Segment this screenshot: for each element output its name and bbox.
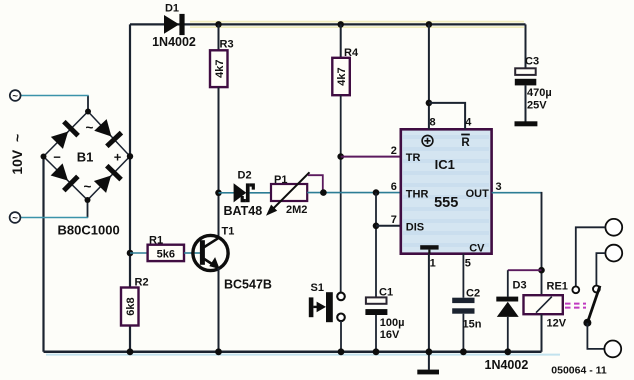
svg-text:555: 555 — [434, 195, 458, 211]
svg-text:2M2: 2M2 — [286, 204, 307, 216]
svg-text:470µ: 470µ — [527, 87, 552, 99]
IC1 internal ground glyph — [420, 245, 438, 249]
node rail pin1 ground junction — [426, 348, 433, 355]
wire D3 top purple — [508, 269, 542, 271]
wire R2 bottom to ground rail — [129, 326, 131, 352]
IC1 fill stripes — [403, 137, 489, 245]
resistor R1 — [148, 245, 184, 261]
svg-text:4k7: 4k7 — [214, 60, 226, 78]
wire P1 wiper loop purple — [308, 175, 323, 192]
svg-text:~: ~ — [86, 120, 94, 135]
svg-text:−: − — [53, 150, 61, 165]
svg-text:R1: R1 — [149, 235, 163, 247]
svg-text:BAT48: BAT48 — [224, 204, 263, 218]
svg-text:1N4002: 1N4002 — [152, 35, 196, 49]
node bridge top corner — [85, 109, 91, 115]
svg-text:6k8: 6k8 — [125, 297, 137, 315]
node rail S1 junction — [338, 348, 345, 355]
svg-text:R3: R3 — [220, 39, 234, 51]
wire R3 bottom to D2 junction to T1 collector — [218, 87, 220, 238]
svg-text:16V: 16V — [380, 329, 400, 341]
svg-text:100µ: 100µ — [380, 317, 405, 329]
svg-text:T1: T1 — [222, 226, 235, 238]
diode D2 schottky BAT48 — [234, 183, 255, 202]
diode D3 triangle — [497, 302, 519, 317]
terminal AC lower — [10, 212, 21, 223]
svg-text:CV: CV — [469, 243, 485, 255]
wire R4 bottom to TR junction to S1 — [340, 95, 342, 293]
relay RE1 body — [524, 295, 563, 314]
node rail T1 emitter junction — [215, 348, 222, 355]
svg-text:R4: R4 — [344, 47, 359, 59]
svg-text:6: 6 — [391, 181, 397, 193]
node bridge plus corner — [127, 153, 133, 159]
svg-text:15n: 15n — [463, 319, 482, 331]
wire top terminal to switch contact A — [576, 227, 606, 286]
svg-text:C2: C2 — [466, 287, 480, 299]
transistor T1 base bar — [200, 240, 205, 265]
wire P1 to THR teal — [307, 192, 401, 194]
wire bridge plus corner down to R2 top — [129, 156, 131, 287]
svg-text:S1: S1 — [311, 282, 324, 294]
svg-text:D1: D1 — [165, 3, 179, 15]
node D3 relay junction — [538, 267, 545, 274]
transistor T1 emitter diagonal with arrow — [204, 259, 217, 267]
pushbutton S1 left bar — [309, 297, 314, 317]
pushbutton S1 top contact — [337, 293, 345, 301]
relay actuation dashed magenta links — [565, 304, 586, 308]
svg-text:1: 1 — [430, 258, 436, 270]
resistor R4 — [332, 58, 350, 95]
svg-text:10V ~: 10V ~ — [9, 134, 25, 175]
svg-text:050064 - 11: 050064 - 11 — [551, 365, 607, 377]
node DIS junction — [373, 223, 380, 230]
wire D3 anode to rail — [507, 317, 509, 352]
ground symbol below rail — [417, 370, 439, 375]
potentiometer P1 arrow — [272, 172, 310, 210]
node rail R2 junction — [127, 348, 134, 355]
node top rail R4 junction — [337, 21, 344, 28]
wire T1 emitter to ground rail — [218, 268, 220, 352]
output terminal middle — [605, 245, 622, 262]
svg-text:7: 7 — [391, 214, 397, 226]
output terminal bottom — [604, 341, 621, 358]
switch contact A open circle — [572, 286, 579, 293]
pushbutton S1 plunger bar — [326, 292, 333, 322]
wire pin5 to C2 — [462, 254, 464, 298]
relay switch blade — [587, 286, 600, 323]
svg-text:3: 3 — [495, 181, 501, 193]
wire C3 from top rail — [525, 24, 527, 68]
node bridge minus corner — [41, 154, 47, 160]
node top rail pin8 junction — [426, 21, 433, 28]
wire left vertical from top rail to bridge plus corner — [129, 24, 131, 156]
wire pin1 to rail and ground — [428, 254, 430, 370]
svg-text:DIS: DIS — [406, 222, 424, 234]
wire pivot to bottom terminal — [587, 323, 605, 349]
svg-text:~: ~ — [12, 91, 18, 102]
node rail C2 junction — [460, 348, 467, 355]
wire teal from upper AC terminal to bridge top — [21, 95, 89, 97]
node rail D3 junction — [504, 348, 511, 355]
svg-text:R: R — [461, 137, 470, 149]
wire D2 anode lead — [219, 192, 235, 194]
wire pin3 OUT horizontal — [492, 192, 542, 194]
bridge diode top-right — [93, 118, 123, 148]
capacitor C3 top plate — [515, 68, 536, 75]
wire stub bridge top corner up — [87, 96, 89, 112]
IC1 555 body — [401, 129, 492, 253]
wire stub bridge bottom corner down — [87, 200, 89, 218]
svg-text:OUT: OUT — [466, 188, 490, 200]
svg-text:D2: D2 — [238, 170, 252, 182]
svg-text:RE1: RE1 — [547, 280, 568, 292]
wire D3 cathode lead — [507, 270, 509, 297]
wire C1 vertical THR to DIS to C1 — [375, 193, 377, 298]
switch contact B open circle — [593, 286, 600, 293]
wire C3 bottom to ground — [525, 85, 527, 121]
capacitor C3 bottom plate — [515, 79, 537, 86]
wire relay bottom to rail — [541, 314, 543, 352]
node TR junction — [337, 153, 344, 160]
node THR C1 junction — [373, 189, 380, 196]
node bridge bottom corner — [85, 197, 91, 203]
capacitor C1 top plate — [366, 297, 387, 303]
svg-text:BC547B: BC547B — [224, 278, 272, 292]
wire C2 bottom to rail — [462, 314, 464, 352]
decorative cyan fringe under ground rail — [46, 354, 560, 356]
wire top supply rail — [130, 23, 526, 25]
svg-text:12V: 12V — [547, 317, 567, 329]
pushbutton S1 stem with arrow — [313, 306, 318, 308]
bridge diode bottom-right — [93, 164, 123, 194]
svg-text:B80C1000: B80C1000 — [58, 223, 120, 238]
svg-text:5: 5 — [465, 258, 471, 270]
node D2 anode junction — [215, 190, 222, 197]
node top rail R3 junction — [215, 21, 222, 28]
diode D1 — [164, 14, 185, 35]
wire R4 top lead — [340, 24, 342, 57]
decorative yellow fringe along top rail — [190, 22, 524, 28]
bridge diode top-left — [50, 120, 80, 150]
wire pin4 branch — [429, 103, 465, 129]
wire R3 top lead — [218, 24, 220, 50]
capacitor C1 bottom plate — [365, 309, 387, 315]
transistor T1 collector diagonal — [204, 238, 220, 248]
wire R1 right lead to T1 base — [184, 252, 200, 254]
IC1 plus symbol — [422, 135, 433, 146]
svg-text:+: + — [114, 150, 122, 165]
diode D3 cathode bar — [496, 297, 518, 302]
wire S1 bottom contact to rail — [340, 321, 342, 352]
svg-text:TR: TR — [406, 152, 421, 164]
capacitor C2 top plate — [452, 298, 474, 303]
svg-text:~: ~ — [84, 179, 92, 194]
resistor R2 — [121, 288, 139, 326]
svg-text:4: 4 — [465, 117, 472, 129]
svg-text:2: 2 — [391, 145, 397, 157]
svg-text:4k7: 4k7 — [336, 67, 348, 85]
output terminal top — [605, 219, 622, 236]
transistor T1 circle — [193, 235, 228, 270]
svg-text:P1: P1 — [274, 174, 287, 186]
relay RE1 diagonal — [536, 297, 552, 313]
node rail C1 junction — [373, 348, 380, 355]
bridge rectifier B1 diamond outline — [44, 112, 131, 201]
wire OUT down to relay top — [541, 192, 543, 295]
terminal AC upper — [10, 90, 21, 101]
svg-text:25V: 25V — [527, 99, 547, 111]
svg-text:~: ~ — [12, 213, 18, 224]
svg-text:C3: C3 — [525, 56, 539, 68]
svg-text:C1: C1 — [379, 286, 393, 298]
wire bridge minus corner down to ground rail — [42, 157, 44, 352]
capacitor C2 bottom plate — [452, 308, 474, 313]
svg-text:5k6: 5k6 — [157, 248, 175, 260]
svg-text:8: 8 — [429, 117, 435, 129]
svg-text:IC1: IC1 — [435, 157, 455, 172]
relay switch pivot dot — [583, 319, 591, 327]
wire R1 left lead — [130, 252, 148, 254]
wire pin8 from top rail — [428, 24, 430, 129]
node P1 wiper junction — [320, 189, 327, 196]
ground symbol below C3 — [515, 121, 538, 126]
wire bottom ground rail — [44, 351, 542, 354]
pushbutton S1 bottom contact — [337, 314, 345, 322]
wire pin7 DIS — [376, 225, 401, 227]
wire C1 bottom to rail — [375, 315, 377, 352]
wire teal from lower AC terminal to bridge bottom — [21, 217, 89, 219]
bridge diode bottom-left — [50, 162, 80, 192]
node pin8 pin4 junction — [426, 100, 433, 107]
node R1 junction on left vertical — [127, 250, 134, 257]
wire middle terminal to switch contact B — [596, 253, 605, 285]
wire D2 cathode to P1 — [249, 192, 271, 194]
svg-text:B1: B1 — [77, 150, 94, 165]
svg-text:D3: D3 — [513, 280, 527, 292]
wire pin2 TR purple — [341, 156, 401, 158]
svg-text:1N4002: 1N4002 — [485, 358, 529, 372]
potentiometer P1 body — [271, 184, 307, 201]
svg-text:THR: THR — [406, 189, 429, 201]
resistor R3 — [210, 50, 228, 87]
